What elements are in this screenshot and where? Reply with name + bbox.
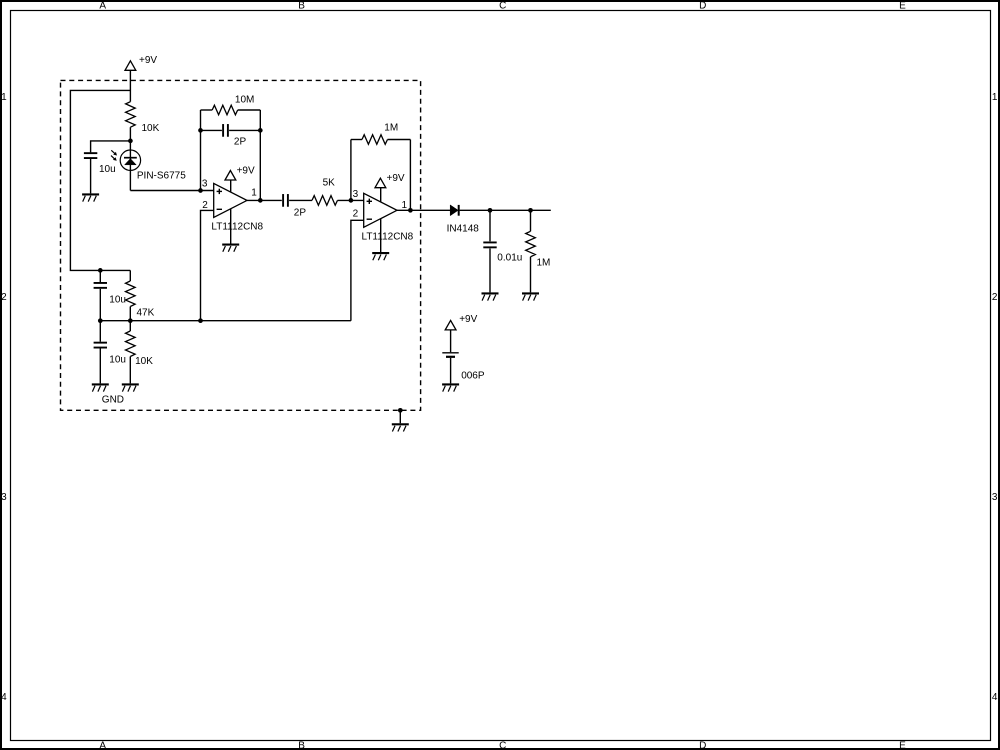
wire U2 feedback right: [409, 140, 411, 211]
wire R6 to ground: [530, 257, 532, 293]
svg-text:47K: 47K: [137, 307, 155, 318]
power +9V (photodiode supply): [125, 55, 157, 70]
svg-text:3: 3: [353, 189, 359, 200]
svg-text:+9V: +9V: [459, 314, 477, 325]
wire U2 feedback top left: [351, 139, 362, 141]
ground (shield): [392, 424, 409, 431]
ground (U1 V-): [222, 245, 239, 252]
svg-text:LT1112CN8: LT1112CN8: [211, 222, 263, 233]
wire U2 -input to divider: [351, 220, 364, 320]
capacitor C1 10u: [84, 153, 116, 175]
svg-text:1: 1: [1, 92, 7, 103]
svg-text:2: 2: [353, 209, 359, 220]
op-amp U2 LT1112CN8: [353, 189, 414, 242]
svg-text:A: A: [99, 741, 106, 750]
wire U1 feedback left: [200, 110, 202, 191]
svg-text:C: C: [499, 741, 506, 750]
svg-text:2: 2: [1, 292, 7, 303]
ground (C5): [92, 384, 124, 405]
op-amp U1 LT1112CN8: [202, 179, 264, 233]
svg-text:10K: 10K: [135, 356, 153, 367]
ground (U2 V-): [372, 253, 389, 260]
svg-text:E: E: [899, 741, 906, 750]
capacitor C2 2P (U1 feedback): [223, 124, 246, 147]
svg-text:5K: 5K: [323, 177, 336, 188]
svg-text:4: 4: [992, 692, 998, 703]
wire C5 to ground: [99, 348, 101, 383]
battery BT1 006P: [442, 353, 485, 382]
svg-text:+9V: +9V: [237, 165, 255, 176]
wire mid rail to R4: [129, 321, 131, 331]
svg-text:1: 1: [992, 92, 998, 103]
resistor R2 10M (U1 feedback): [212, 94, 254, 115]
svg-text:2: 2: [202, 200, 208, 211]
wire C6 to ground: [489, 249, 491, 293]
svg-text:10M: 10M: [235, 94, 254, 105]
wire U2 output to D1: [397, 209, 450, 211]
svg-text:10u: 10u: [99, 164, 116, 175]
wire divider node to C4: [99, 270, 101, 282]
svg-text:3: 3: [1, 492, 7, 503]
svg-text:D: D: [699, 1, 706, 12]
wire divider top to R3: [129, 270, 131, 281]
svg-text:2P: 2P: [294, 208, 307, 219]
ground (battery): [442, 384, 459, 391]
svg-text:006P: 006P: [461, 371, 485, 382]
junction node dots: [98, 128, 533, 413]
wire U1 V- pin: [230, 209, 232, 244]
svg-text:GND: GND: [102, 395, 124, 406]
svg-text:+9V: +9V: [387, 173, 405, 184]
photodiode PD1 PIN-S6775: [111, 150, 186, 181]
ground (C1): [82, 194, 99, 201]
svg-text:4: 4: [1, 692, 7, 703]
capacitor C6 0.01u: [483, 242, 522, 263]
wire U1 feedback top left: [201, 109, 213, 111]
wire U1 V+ pin: [230, 180, 232, 192]
resistor R3 47K: [126, 281, 155, 318]
svg-text:C: C: [499, 1, 506, 12]
svg-text:10u: 10u: [109, 294, 126, 305]
wire C4 to mid rail: [99, 289, 101, 321]
resistor R7 1M (U2 feedback): [362, 123, 398, 145]
wire U1 feedback top right: [238, 109, 261, 111]
svg-text:10K: 10K: [142, 123, 160, 134]
wire U2 feedback top right: [388, 139, 411, 141]
wire +9V to R1: [129, 70, 131, 101]
ground (C6): [482, 293, 499, 300]
wire U1 output: [247, 199, 282, 201]
wire node to C6: [489, 210, 491, 241]
wire R3 to mid rail: [129, 307, 131, 321]
svg-text:1M: 1M: [384, 123, 398, 134]
wire U1 -input to divider: [201, 210, 214, 320]
wire mid rail to C5: [99, 321, 101, 342]
capacitor C5 10u: [94, 343, 126, 366]
resistor R1 10K: [126, 102, 160, 134]
svg-text:1: 1: [402, 200, 408, 211]
wire C2 right: [229, 129, 260, 131]
wire +9V branch / left rail / divider top: [70, 90, 130, 270]
wire node to C1: [91, 141, 131, 153]
wire U2 V- pin: [380, 219, 382, 252]
wire U2 feedback left: [350, 140, 352, 201]
svg-text:+9V: +9V: [139, 55, 157, 66]
svg-text:1: 1: [251, 188, 257, 199]
wire D1 to output end: [460, 209, 551, 211]
wire battery to ground: [450, 358, 452, 384]
svg-text:2: 2: [992, 292, 998, 303]
wire C2 left: [201, 129, 222, 131]
svg-text:IN4148: IN4148: [447, 223, 480, 234]
ground (R6): [522, 293, 539, 300]
svg-text:D: D: [699, 741, 706, 750]
svg-text:B: B: [298, 1, 305, 12]
wire divider mid rail: [100, 320, 351, 322]
svg-text:0.01u: 0.01u: [497, 252, 522, 263]
shielded enclosure (dashed box): [61, 80, 421, 410]
resistor R5 5K: [312, 177, 338, 205]
diode D1 IN4148: [447, 205, 480, 235]
svg-text:A: A: [99, 1, 106, 12]
svg-text:B: B: [298, 741, 305, 750]
wire R1 to photodiode to U1 +input: [130, 127, 213, 190]
power +9V (op-amp U2): [375, 173, 405, 188]
svg-text:LT1112CN8: LT1112CN8: [362, 231, 414, 242]
svg-text:3: 3: [992, 492, 998, 503]
resistor R6 1M: [526, 231, 551, 268]
resistor R4 10K: [126, 331, 154, 367]
svg-text:2P: 2P: [234, 137, 247, 148]
power +9V (op-amp U1): [225, 165, 255, 180]
wire +9V to battery: [450, 330, 452, 352]
svg-text:E: E: [899, 1, 906, 12]
wire U1 feedback right: [259, 110, 261, 200]
wire shield to ground: [399, 410, 401, 423]
wire C1 to ground: [90, 159, 92, 193]
wire node to R6: [530, 210, 532, 231]
svg-text:1M: 1M: [537, 257, 551, 268]
wire U2 V+ pin: [380, 188, 382, 202]
svg-text:PIN-S6775: PIN-S6775: [137, 170, 186, 181]
capacitor C4 10u: [94, 283, 126, 305]
svg-text:10u: 10u: [109, 355, 126, 366]
wire R5 to U2 +input: [338, 199, 364, 201]
capacitor C3 2P (coupling): [283, 194, 306, 219]
power +9V (battery): [445, 314, 477, 330]
wire R4 to ground: [129, 357, 131, 384]
ground (R4): [122, 384, 139, 391]
wire C3 to R5: [289, 199, 312, 201]
svg-text:3: 3: [202, 179, 208, 190]
